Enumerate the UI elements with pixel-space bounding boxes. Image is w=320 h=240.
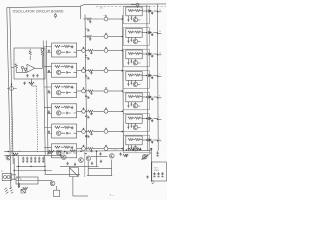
vertical bus wire (left cells feed A) (43, 41, 45, 156)
capacitor (bottom) (74, 163, 76, 166)
wire to second trimmer (row 2) (93, 70, 104, 72)
junction dot row 5 (122, 131, 124, 133)
vertical wire x=14.2 (13, 158, 15, 180)
wire row 1 to bus (108, 50, 122, 52)
preamp block outline box (14, 48, 45, 79)
wire (41, 56, 43, 62)
capacitor left of output box (146, 176, 148, 179)
tuning trimmer circle (cell 2) at x=106 (104, 67, 108, 72)
junction dot (11, 84, 12, 85)
junction dot row 1 (122, 50, 124, 52)
wire 5 (85, 131, 87, 133)
wire upper row 2 (83, 36, 104, 38)
wire cell 4 output (77, 110, 82, 112)
capacitor (bottom) (91, 162, 93, 165)
small connector circle above first right cell (136, 3, 139, 6)
wire to right bus (cell 1) (153, 10, 157, 12)
small connector symbol right of title (54, 14, 56, 16)
capacitor (bottom) (120, 152, 122, 155)
junction dot right cell 4 (146, 75, 148, 77)
vertical bus wire at x=122 (122, 15, 123, 151)
op-amp U1 triangle (27, 64, 35, 72)
filter capacitor C2 with ground (26, 157, 29, 163)
diode CR7 (149, 139, 151, 142)
wire at top of right column (131, 5, 138, 8)
tuning trimmer circle (cell 4) at x=83.5 (82, 108, 86, 113)
tuning trimmer circle (cell 1) at x=83.5 (82, 47, 86, 52)
junction dot right cell 7 (146, 139, 148, 141)
junction dot bottom right row (126, 149, 127, 150)
small transistor circle Q (21, 66, 23, 68)
transistor Q (bottom middle 3) (86, 156, 91, 161)
filter capacitor C6 with ground (42, 157, 45, 163)
connector pin circle (4, 176, 7, 179)
diagonal resistor (bottom right) (142, 152, 152, 159)
right oscillator cell 1 box with transistor, resistors, capacitors (126, 7, 142, 22)
capacitor (bottom) (60, 153, 62, 156)
output stub cell 4 (158, 75, 162, 77)
wire cell 6 output (77, 148, 82, 150)
wire bus to cell 6 (44, 147, 51, 153)
vertical wire x=85 bottom block (84, 152, 86, 177)
wire cell 5 output (77, 131, 82, 133)
capacitor in row 2 cluster (90, 72, 92, 75)
capacitor at cell 2 input (48, 70, 50, 73)
junction dot on supply wire (80, 151, 82, 153)
bus junction dot cell 6 (157, 119, 159, 121)
resistor in row 1 cluster (88, 49, 94, 51)
wire upper row 1 (83, 18, 104, 20)
wire bus to cell 1 (44, 47, 51, 53)
capacitor cluster on x=85 bus (85, 97, 90, 99)
resistor (bottom right) (136, 148, 142, 150)
wire cell 7 to bus (142, 139, 147, 141)
vertical wire x=112 (bottom middle loop) (111, 160, 113, 176)
connector pin circle (7, 176, 10, 179)
right oscillator cell 4 box with transistor, resistors, capacitors (126, 72, 142, 87)
wire 6 (85, 148, 87, 150)
wire row 5 to bus (108, 131, 122, 133)
right oscillator cell 6 outer enclosure box (123, 114, 149, 132)
junction dot row 6 (122, 148, 124, 150)
horizontal wire y=155 (4, 154, 61, 156)
bus junction dot cell 4 (157, 76, 159, 78)
bus junction dot 6 (85, 153, 86, 154)
horizontal wire y=170.5 (14, 170, 52, 172)
horizontal wire y=174 (45, 173, 81, 175)
junction dot on supply wire (64, 151, 66, 153)
transistor Q (bottom middle 1) (62, 155, 67, 160)
wires to cable (12, 175, 17, 179)
junction dot (18, 183, 20, 185)
wire cell 1 output (77, 50, 82, 52)
bus junction dot cell 3 (157, 54, 159, 56)
junction dot on supply wire (96, 150, 98, 152)
board outline: top edge right section (wavy scan line) (80, 4, 166, 6)
vertical bus wire at x=147 (147, 5, 148, 151)
resistor (bottom left) (13, 153, 18, 155)
wire cable to transistor (38, 180, 52, 182)
connector pin circle (41, 48, 44, 51)
crystal/component box with diagonal (21, 189, 25, 193)
right oscillator cell 7 outer enclosure box (123, 135, 149, 153)
capacitor in row 6 cluster (90, 149, 92, 152)
left oscillator cell 1 box with transistor Q1, resistors, capacitors (52, 43, 77, 57)
junction dot row 3 (122, 90, 124, 92)
capacitor right of cell 1 (151, 11, 154, 15)
capacitor cluster on x=85 bus (85, 58, 90, 60)
junction dot y=170 (14, 170, 15, 171)
resistor in row 3 cluster (88, 90, 94, 92)
wire 4 (85, 110, 87, 112)
wire row 2 to bus (108, 70, 122, 72)
wire preamp output down (32, 79, 37, 86)
output stub cell 2 (158, 32, 162, 34)
diode CR6 (149, 117, 151, 120)
junction dot y=166 (44, 166, 45, 167)
wire row 3 to bus (108, 90, 122, 92)
faint second scan line below top edge (96, 5, 166, 7)
left oscillator cell 3 box with transistor Q3, resistors, capacitors (52, 84, 77, 98)
diode CR1 (149, 10, 151, 13)
resistor (bottom right) (129, 148, 135, 150)
vertical right-edge bus wire (156, 4, 159, 151)
board outline: outer left border line (7, 8, 11, 189)
capacitor C (preamp) (36, 74, 38, 77)
wire to second trimmer (row 6) (93, 148, 104, 150)
junction dot row 2 (122, 70, 124, 72)
left oscillator cell 6 box with transistor Q6, resistors, capacitors (52, 144, 77, 158)
wire cell 2 output (77, 70, 82, 72)
transistor Q (bottom middle 4) (110, 154, 115, 159)
resistor (bottom) (49, 150, 55, 152)
wire op-amp output (35, 62, 42, 68)
right oscillator cell 4 outer enclosure box (123, 71, 149, 89)
junction dot (14, 155, 15, 156)
wire from left border to preamp (11, 67, 14, 69)
resistor R (vertical, top of preamp) (29, 51, 31, 56)
wire to right bus (cell 4) (153, 75, 157, 77)
capacitor (bottom left cluster) (18, 185, 20, 188)
long horizontal supply wire (4, 151, 151, 152)
right oscillator cell 3 outer enclosure box (123, 49, 149, 67)
junction dot bottom right row (140, 149, 141, 150)
bus junction dot 4 (85, 116, 86, 117)
tuning trimmer circle (cell 6) at x=106 (104, 145, 108, 150)
right oscillator cell 5 outer enclosure box (123, 92, 149, 110)
capacitor cluster on x=85 bus (85, 116, 90, 118)
ground hatch (bottom left) (4, 188, 8, 194)
junction dot bottom right row (133, 149, 134, 150)
capacitor at cell 4 input (48, 110, 50, 113)
junction dot row 4 (122, 111, 124, 113)
transistor Q (bottom right) (143, 154, 148, 159)
wire 1 (85, 50, 87, 52)
wire bus to cell 3 (44, 87, 51, 93)
resistor (vertical, left in preamp) (15, 64, 17, 69)
capacitor C (preamp) (26, 74, 28, 77)
wire 3 (85, 90, 87, 92)
capacitor right of cell 6 (151, 119, 154, 123)
transistor Q (bottom middle 2) (79, 158, 84, 163)
wire to second trimmer (row 4) (93, 110, 104, 112)
vertical wire from top edge down to row 1 (80, 6, 82, 19)
input connector box (2, 174, 11, 181)
capacitor right of cell 5 (151, 97, 154, 101)
resistor (upper row 2) (86, 35, 92, 37)
junction dot right cell 1 (146, 10, 148, 12)
capacitor at cell 5 input (48, 131, 50, 134)
wire 2 (85, 70, 87, 72)
wire to second trimmer (row 1) (93, 50, 104, 52)
resistor in row 2 cluster (88, 70, 94, 72)
transistor circle on left border wire (10, 87, 14, 91)
horizontal wire y=176 (bottom middle loop) (87, 175, 112, 177)
junction dot upper row 1 (122, 18, 124, 20)
wire (29, 49, 31, 60)
right oscillator cell 5 box with transistor, resistors, capacitors (126, 93, 142, 108)
capacitor in row 4 cluster (90, 112, 92, 115)
tuning trimmer circle (cell 3) at x=106 (104, 88, 108, 93)
wire cell 3 to bus (142, 53, 147, 55)
bus junction dot cell 5 (157, 97, 159, 99)
output block box (bottom right) (152, 162, 167, 181)
small transistor circle Q (24, 68, 26, 70)
vertical wire x=18.2 (17, 156, 19, 188)
diode CR2 (149, 31, 151, 34)
junction dot (bottom right) (150, 148, 152, 150)
right oscillator cell 7 box with transistor, resistors, capacitors (126, 136, 142, 151)
wire cell 2 to bus (142, 32, 147, 34)
capacitor with ground in output box (157, 172, 159, 177)
tuning trimmer circle (cell 5) at x=106 (104, 128, 108, 133)
tuning trimmer circle (cell 2) at x=83.5 (82, 67, 86, 72)
wire cell 1 to bus (142, 10, 147, 12)
vertical wire x=151.3 (150, 149, 152, 181)
wire cell 5 to bus (142, 96, 147, 98)
wire to right bus (cell 3) (153, 53, 157, 55)
capacitor right of cell 7 (151, 140, 154, 144)
capacitor (bottom) (100, 160, 102, 163)
right oscillator cell 2 outer enclosure box (123, 28, 149, 46)
junction dot y=170 (44, 170, 45, 171)
junction dot y=166 (30, 166, 31, 167)
output stub cell 1 (158, 11, 162, 13)
capacitor in row 3 cluster (90, 92, 92, 95)
right oscillator cell 1 outer enclosure box (123, 6, 149, 24)
bus junction dot 5 (85, 136, 86, 137)
wire upper row 1 to bus (108, 18, 122, 20)
capacitor right of cell 3 (151, 54, 154, 58)
dashed vertical wire along left border (11, 90, 13, 155)
capacitor at cell 6 input (48, 150, 50, 153)
capacitor (upper row 2) (89, 38, 91, 41)
vertical wire x=45 down to y=174 (44, 155, 47, 174)
bus junction dot cell 7 (157, 140, 159, 142)
capacitor (bottom) (125, 154, 127, 157)
resistor (upper row 1) (86, 18, 92, 20)
junction dot right cell 5 (146, 96, 148, 98)
horizontal wire y=166 (16, 165, 45, 167)
horizontal wire y=196 (bottom) (73, 195, 88, 197)
filter capacitor C1 with ground (22, 157, 25, 163)
wire upper row 2 to bus (108, 36, 122, 38)
output stub cell 7 (158, 140, 162, 142)
resistor (vertical, right of preamp) (41, 52, 43, 57)
junction dot right cell 6 (146, 118, 148, 120)
junction dot (8, 151, 10, 153)
wire row 6 to bus (108, 148, 122, 150)
resistor (bottom right of Q) (123, 154, 129, 156)
wire to right bus (cell 5) (153, 96, 157, 98)
capacitor cluster on x=85 bus (85, 136, 90, 138)
wire through connector symbol (54, 13, 56, 18)
wire bus to cell 2 (44, 67, 51, 73)
bus junction dot 3 (85, 95, 86, 96)
junction dot upper row 2 (122, 36, 124, 38)
tuning trimmer circle (cell 5) at x=83.5 (82, 128, 86, 133)
wire to right bus (cell 2) (153, 32, 157, 34)
junction dot y=166 (18, 166, 19, 167)
transistor Q (bottom left) (6, 155, 11, 160)
capacitor at cell 1 input (48, 50, 50, 53)
diode CR5 (149, 96, 151, 99)
horizontal wire y=169 (bottom middle loop) (88, 168, 111, 170)
capacitor with ground in output box (153, 172, 155, 177)
capacitor in row 5 cluster (90, 132, 92, 135)
ground hatch at bottom of left border (9, 187, 13, 193)
left oscillator cell 2 box with transistor Q2, resistors, capacitors (52, 63, 77, 77)
capacitor with ground at x=157.6 bottom (156, 151, 158, 156)
board outline: top edge left section (7, 6, 80, 7)
shielded cable rectangle (16, 177, 38, 184)
resistor below preamp (29, 82, 34, 84)
output stub cell 5 (158, 97, 162, 99)
output stub cell 6 (158, 118, 162, 120)
wire cell 6 to bus (142, 118, 147, 120)
right oscillator cell 3 box with transistor, resistors, capacitors (126, 50, 142, 65)
right oscillator cell 6 box with transistor, resistors, capacitors (126, 115, 142, 130)
ground hatch below output box (151, 180, 154, 184)
resistor in row 5 cluster (88, 130, 94, 132)
left oscillator cell 5 box with transistor Q5, resistors, capacitors (52, 124, 77, 138)
wire bus to cell 4 (44, 107, 51, 113)
resistor (bottom left cluster) (22, 187, 28, 189)
bus junction dot 1 (85, 55, 86, 56)
cable hatch marks (17, 177, 22, 181)
resistor (bottom) (70, 150, 76, 152)
wire bus to cell 5 (44, 128, 51, 134)
capacitor cluster on x=85 bus (85, 77, 90, 79)
component box with diagonal (bottom middle) (69, 168, 78, 177)
wire to right bus (cell 7) (153, 139, 157, 141)
vertical wire x=96.5 (96, 151, 98, 167)
wire transistor to transistor (bottom middle) (91, 155, 107, 157)
filter capacitor C4 with ground (34, 157, 37, 163)
right oscillator cell 2 box with transistor, resistors, capacitors (126, 29, 142, 44)
wire at left border junction (7, 84, 17, 89)
capacitor right of cell 2 (151, 33, 154, 37)
capacitor (upper row 1) (89, 20, 91, 23)
junction dot right cell 3 (146, 53, 148, 55)
capacitor in row 1 cluster (90, 51, 92, 54)
filter capacitor C3 with ground (30, 157, 33, 163)
vertical bus wire at x=85 (85, 15, 87, 151)
wire row 4 to bus (108, 110, 122, 112)
capacitor at cell 3 input (48, 90, 50, 93)
bus junction dot cell 1 (157, 11, 159, 13)
vertical wire x=88 (bottom middle loop) (87, 161, 89, 176)
wire (56, 186, 58, 190)
tuning trimmer circle (upper row 2) (104, 33, 108, 38)
resistor (bottom) (56, 150, 62, 152)
wire cell 4 to bus (142, 75, 147, 77)
capacitor right of cell 4 (151, 76, 154, 80)
tuning trimmer circle (cell 1) at x=106 (104, 47, 108, 52)
vertical bus wire (left cells feed B) (46, 41, 48, 156)
capacitor cluster on x=85 bus (85, 29, 90, 31)
bus junction dot 2 (85, 75, 86, 76)
resistor in row 4 cluster (88, 110, 94, 112)
cable center conductor line (16, 180, 38, 182)
resistor in row 6 cluster (88, 148, 94, 150)
diode CR3 (149, 53, 151, 56)
wire to second trimmer (row 3) (93, 90, 104, 92)
tuning trimmer circle (cell 3) at x=83.5 (82, 88, 86, 93)
capacitor (bottom) (67, 162, 69, 165)
board outline: inner left border line (10, 8, 13, 164)
wire (16, 68, 27, 72)
filter capacitor C5 with ground (38, 157, 41, 163)
diode CR4 (149, 74, 151, 77)
small component box below transistor (54, 190, 60, 196)
bus junction dot cell 2 (157, 33, 159, 35)
horizontal wire y=166.6 (60, 166, 99, 168)
wire cell 3 output (77, 90, 82, 92)
capacitor below preamp (24, 82, 26, 85)
wire to second trimmer (row 5) (93, 131, 104, 133)
capacitor C (preamp) (32, 74, 34, 77)
left oscillator cell 4 box with transistor Q4, resistors, capacitors (52, 104, 77, 118)
output stub cell 3 (158, 54, 162, 56)
wire to right bus (cell 6) (153, 118, 157, 120)
transistor Q (lower middle) (50, 181, 55, 186)
dashed vertical wire from preamp block (37, 86, 38, 152)
tuning trimmer circle (upper row 1) (104, 16, 108, 21)
tuning trimmer circle (cell 4) at x=106 (104, 108, 108, 113)
vertical wire x=73 (bottom) (72, 177, 74, 197)
tuning trimmer circle (cell 6) at x=83.5 (82, 145, 86, 150)
capacitor with ground in output box (161, 172, 163, 177)
junction dot right cell 2 (146, 32, 148, 34)
capacitor (bottom middle) (99, 152, 101, 155)
